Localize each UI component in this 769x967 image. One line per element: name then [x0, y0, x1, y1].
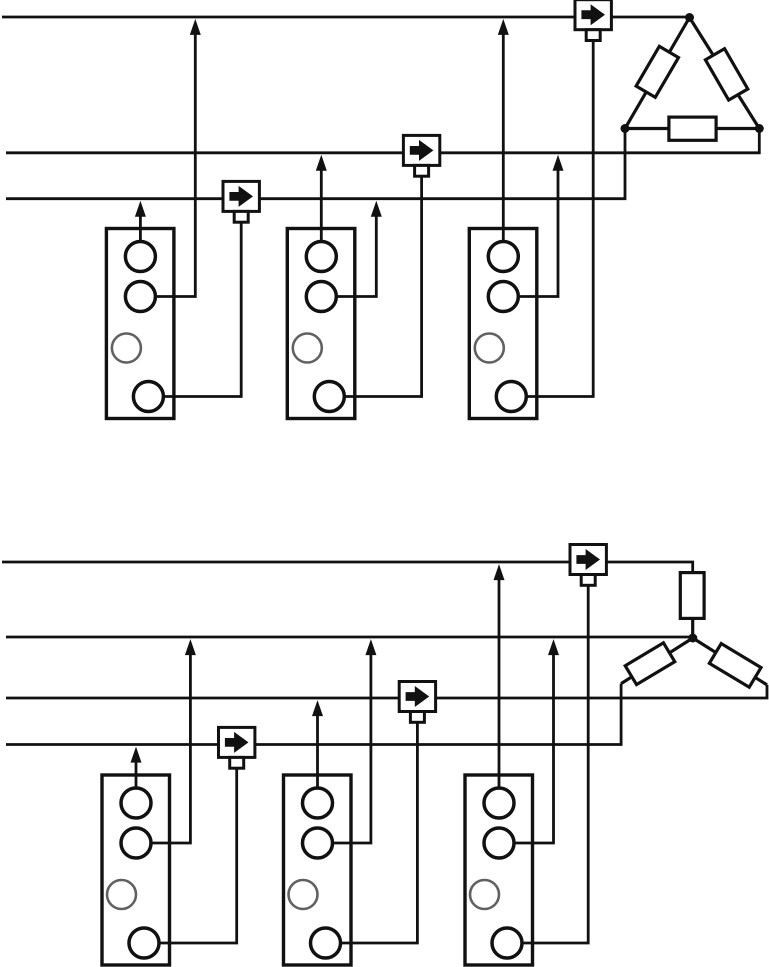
wire line L1 (top system)	[2, 16, 690, 19]
wattmeter PI4 voltage terminal 2	[121, 828, 151, 858]
wire line L1 (bottom system, runs to wye resistor)	[2, 562, 693, 573]
wire wye top branch	[691, 618, 694, 638]
wattmeter PI1	[106, 229, 173, 419]
wattmeter PI4	[102, 775, 170, 965]
wattmeter PI1 current terminal	[133, 382, 163, 412]
wire wye left branch	[621, 638, 693, 684]
current transformer TA4 (on line L3 bottom system) secondary terminal	[230, 757, 244, 768]
wattmeter PI1 unused terminal	[112, 334, 141, 363]
wire PI3 current terminal to CT TA3	[526, 41, 593, 397]
wire PI1 terminal1 to line L3 (arrow)	[135, 201, 146, 242]
wattmeter PI2 voltage terminal 2	[306, 282, 336, 312]
wattmeter PI6	[465, 775, 533, 965]
wire PI4 terminal2 to neutral N (arrow)	[151, 639, 196, 843]
node wye center (neutral junction)	[688, 634, 697, 643]
wattmeter PI4 voltage terminal 1	[121, 788, 151, 818]
wattmeter PI3	[469, 229, 537, 419]
wire PI1 terminal2 to line L1 (arrow)	[155, 19, 200, 297]
wire PI4 current terminal to CT TA4	[159, 769, 237, 944]
wattmeter PI3 unused terminal	[475, 334, 504, 363]
resistor R2 (delta right branch)	[705, 49, 747, 100]
wattmeter PI2	[287, 229, 355, 419]
wire line L3 (top system, runs to delta corner)	[6, 129, 625, 199]
resistor R6 (wye right branch)	[709, 644, 761, 688]
wire PI5 terminal2 to neutral N (arrow)	[333, 639, 377, 843]
wire PI2 terminal2 to line L3 (arrow)	[336, 201, 382, 297]
current transformer TA3 (on line L1)	[575, 0, 611, 30]
resistor R3 (delta bottom branch)	[669, 117, 716, 140]
current transformer TA1 (on line L3) secondary terminal	[234, 211, 248, 222]
wattmeter PI5 current terminal	[311, 928, 341, 958]
wattmeter PI4 unused terminal	[107, 880, 136, 909]
resistor R4 (wye top branch)	[680, 573, 704, 619]
wattmeter PI5 voltage terminal 1	[303, 788, 333, 818]
wire PI3 terminal2 to line L2 (arrow)	[518, 155, 563, 297]
wire delta side right	[690, 18, 760, 129]
wattmeter PI5 unused terminal	[289, 880, 318, 909]
node delta bottom-left (line L3 junction)	[621, 124, 630, 133]
wire line L2 (bottom system, runs up to wye right branch)	[6, 685, 767, 698]
resistor R1 (delta left branch)	[636, 46, 678, 97]
wire delta side left	[625, 18, 690, 129]
wattmeter PI6 voltage terminal 2	[484, 828, 514, 858]
wattmeter PI3 current terminal	[496, 382, 526, 412]
wattmeter PI1 voltage terminal 2	[125, 282, 155, 312]
wire PI4 terminal1 to line L3 (arrow)	[131, 747, 142, 788]
wire PI6 current terminal to CT TA6	[522, 586, 588, 944]
wire wye right branch	[693, 638, 767, 685]
current transformer TA1 (on line L3)	[223, 181, 259, 211]
current transformer TA5 (on line L2 bottom system) secondary terminal	[410, 712, 424, 723]
wattmeter PI2 unused terminal	[293, 334, 322, 363]
wire line L2 (top system, runs to delta corner)	[6, 129, 759, 153]
current transformer TA2 (on line L2) secondary terminal	[415, 165, 429, 176]
wattmeter PI6 current terminal	[492, 928, 522, 958]
node delta bottom-right (line L2 junction)	[755, 124, 764, 133]
wire PI5 current terminal to CT TA5	[341, 723, 418, 944]
wattmeter PI3 voltage terminal 1	[488, 242, 518, 272]
current transformer TA2 (on line L2)	[403, 135, 439, 165]
node delta apex (line L1 junction)	[685, 13, 694, 22]
wire neutral line N (bottom system, runs to wye center)	[6, 636, 693, 639]
wire PI6 terminal2 to neutral N (arrow)	[514, 639, 559, 843]
current transformer TA6 (on line L1 bottom system) secondary terminal	[581, 575, 595, 586]
current transformer TA3 (on line L1) secondary terminal	[586, 30, 600, 41]
wire PI1 current terminal to CT TA1	[163, 223, 241, 397]
wattmeter PI5	[284, 775, 352, 965]
wattmeter PI4 current terminal	[129, 928, 159, 958]
wire PI2 current terminal to CT TA2	[344, 177, 421, 397]
wattmeter PI6 voltage terminal 1	[484, 788, 514, 818]
wattmeter PI5 voltage terminal 2	[303, 828, 333, 858]
wire delta side bottom	[625, 127, 759, 130]
wattmeter PI1 voltage terminal 1	[125, 242, 155, 272]
wire PI5 terminal1 to line L2 (arrow)	[312, 700, 323, 788]
current transformer TA4 (on line L3 bottom system)	[219, 727, 255, 757]
resistor R5 (wye left branch)	[625, 643, 675, 685]
current transformer TA5 (on line L2 bottom system)	[399, 682, 435, 712]
wire line L3 (bottom system, runs up to wye left branch)	[6, 684, 621, 745]
wattmeter PI2 current terminal	[314, 382, 344, 412]
wire PI2 terminal1 to line L2 (arrow)	[316, 155, 327, 242]
wire PI6 terminal1 to line L1 (arrow)	[494, 564, 505, 788]
wattmeter PI2 voltage terminal 1	[306, 242, 336, 272]
wire PI3 terminal1 to line L1 (arrow)	[498, 19, 509, 242]
wattmeter PI3 voltage terminal 2	[488, 282, 518, 312]
current transformer TA6 (on line L1 bottom system)	[570, 545, 606, 575]
wattmeter PI6 unused terminal	[470, 880, 499, 909]
